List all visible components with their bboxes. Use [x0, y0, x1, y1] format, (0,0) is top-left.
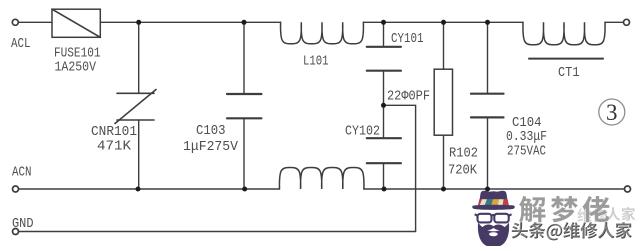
svg-text:275VAC: 275VAC	[507, 144, 546, 160]
terminal ACN OUT	[625, 186, 631, 192]
node Y-cap midpoint	[381, 103, 386, 108]
terminal ACN	[13, 186, 19, 192]
node fuse/CNR101	[136, 20, 141, 25]
CT1 core line	[529, 58, 603, 60]
svg-text:CT1: CT1	[558, 65, 580, 81]
wire C104 bottom	[487, 117, 489, 189]
node C103 top	[242, 20, 247, 25]
svg-text:GND: GND	[12, 216, 34, 232]
wire C104 top	[487, 22, 489, 93]
wire CY101 top	[383, 22, 385, 47]
wire C103 top	[243, 22, 245, 94]
svg-text:ACL: ACL	[11, 36, 31, 52]
svg-text:CY101: CY101	[391, 31, 424, 47]
wire GND rail	[19, 231, 416, 233]
svg-text:1A250V: 1A250V	[55, 60, 97, 76]
node R102 bottom	[441, 187, 446, 192]
wire R102 bottom	[443, 135, 445, 189]
watermark ghost text	[577, 207, 635, 222]
inductor L101 winding	[281, 22, 364, 44]
node R102 top	[441, 20, 446, 25]
node C104 bottom	[485, 187, 490, 192]
capacitor C104	[471, 94, 504, 118]
capacitor C103	[227, 94, 261, 118]
varistor CNR101	[115, 90, 156, 124]
watermark logo glasses	[475, 214, 512, 223]
svg-text:R102: R102	[449, 146, 478, 162]
svg-text:L101: L101	[303, 54, 329, 70]
wire CT1 to output terminal	[605, 21, 623, 23]
terminal GND	[13, 229, 19, 235]
wire ACN rail left	[19, 188, 280, 190]
wire ACN rail right	[364, 188, 624, 190]
wire earth riser to Y-cap midpoint	[384, 105, 416, 231]
wire CY102 bottom	[383, 163, 385, 189]
watermark text toutiao weixiurenjia	[511, 221, 632, 240]
svg-text:471K: 471K	[97, 139, 132, 155]
svg-text:ACN: ACN	[12, 165, 32, 181]
wire CNR101 top	[138, 22, 140, 93]
wire C103 bottom	[243, 118, 245, 189]
node marker circled 3	[599, 99, 625, 125]
node CY102 bottom	[382, 187, 387, 192]
svg-text:1μF275V: 1μF275V	[183, 139, 239, 155]
inductor L101 lower winding	[279, 168, 364, 190]
terminal ACL OUT	[624, 19, 630, 25]
svg-text:22Φ0PF: 22Φ0PF	[387, 89, 430, 105]
terminal ACL	[12, 19, 18, 25]
inductor CT1 winding	[523, 22, 605, 45]
svg-text:3: 3	[606, 100, 618, 125]
wire CNR101 bottom	[138, 120, 140, 189]
fuse FUSE101	[52, 9, 100, 37]
node CNR101 bottom	[136, 187, 141, 192]
wire CY101 to midpoint node	[383, 71, 385, 139]
wire ACL to fuse	[19, 21, 53, 23]
node CY101 top	[381, 20, 386, 25]
svg-text:C103: C103	[196, 123, 226, 139]
capacitor CY101	[367, 47, 401, 71]
svg-text:CY102: CY102	[345, 124, 380, 140]
wire fuse to L101, node row	[100, 21, 280, 23]
wire L101 to CT1	[363, 21, 523, 23]
watermark logo mouth	[489, 232, 498, 236]
resistor R102	[434, 69, 452, 135]
node C104 top	[485, 20, 490, 25]
capacitor CY102	[367, 138, 401, 163]
watermark text jiemenglao	[519, 196, 609, 222]
watermark logo hat	[472, 191, 515, 210]
svg-text:720K: 720K	[448, 163, 478, 179]
node C103 bottom	[242, 187, 247, 192]
watermark logo beard	[478, 223, 509, 247]
wire R102 top	[443, 22, 445, 69]
